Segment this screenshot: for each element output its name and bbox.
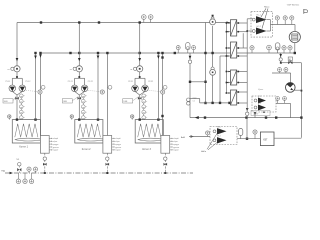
- hx circulation pump: [211, 67, 214, 70]
- kt outlet instruments: [277, 98, 279, 103]
- svg-text:С1: С1: [193, 101, 195, 103]
- gas meters above: [28, 169, 30, 173]
- svg-text:ГН1: ГН1: [16, 159, 19, 161]
- kt inlet drop: [254, 112, 256, 118]
- offpage connector flag: [303, 9, 305, 14]
- svg-text:продув: продув: [173, 144, 179, 146]
- junction supply-riser2: [98, 21, 100, 23]
- svg-text:дренаж: дренаж: [173, 147, 180, 149]
- pipe riser to bottom return: [189, 53, 191, 118]
- safety valve RU-12: [19, 85, 26, 92]
- svg-text:Котел 1: Котел 1: [19, 145, 28, 148]
- svg-text:РУ-12: РУ-12: [26, 81, 31, 83]
- network pump NS-2: [252, 30, 255, 33]
- feed pump box (dashed): [210, 127, 237, 145]
- svg-text:АпВ: АпВ: [181, 136, 186, 139]
- sensor column boiler 2: [82, 96, 84, 118]
- boiler pump KT-1: [254, 99, 257, 102]
- valve group outlet pipe 1: [12, 91, 17, 95]
- meter circle r2: [268, 48, 270, 54]
- svg-text:РУ-32: РУ-32: [148, 81, 153, 83]
- hx port stub: [226, 71, 230, 73]
- riser pipe boiler 1: [16, 23, 18, 67]
- junction gas line boiler 3: [164, 172, 166, 174]
- label box group 2: [62, 99, 72, 103]
- svg-text:РУ-11: РУ-11: [6, 81, 11, 83]
- burner flame boiler 3: [138, 138, 166, 141]
- shutoff valve under group 1: [15, 97, 19, 100]
- pump N3: [139, 66, 141, 77]
- svg-text:НС-1: НС-1: [257, 15, 261, 17]
- bottom return line: [190, 117, 301, 119]
- discharge meter 1: [276, 18, 278, 25]
- return expansion tank: [186, 43, 190, 50]
- gas drop pipe boiler 1: [44, 153, 46, 173]
- gas drop circle boiler 1: [43, 157, 46, 160]
- supply header pipe: [17, 22, 233, 24]
- instrument circles x188: [187, 98, 190, 101]
- svg-text:НС-2: НС-2: [257, 26, 261, 28]
- drum outlet labels boiler 2: [112, 137, 114, 139]
- gas drop circle boiler 3: [164, 157, 167, 160]
- drum outlet labels boiler 1: [49, 137, 51, 139]
- burner body boiler 3: [164, 138, 168, 142]
- hx port stub: [226, 82, 230, 84]
- svg-text:НаСо: НаСо: [264, 7, 270, 9]
- svg-text:дренаж: дренаж: [53, 147, 60, 149]
- gas main line: [5, 172, 193, 174]
- discharge meter 2: [284, 18, 286, 25]
- meter circle r3: [283, 48, 285, 53]
- drum return pipe: [40, 53, 42, 136]
- safety valve RU-31: [132, 85, 139, 92]
- hx left manifold pipe: [225, 23, 227, 93]
- hx port stub: [226, 47, 230, 49]
- boiler pump box (dashed): [252, 96, 276, 112]
- boiler gauge 3: [131, 117, 133, 120]
- boiler K3 outlet junction: [157, 118, 159, 120]
- pump discharge pipe: [295, 89, 302, 91]
- hx right stub: [237, 55, 248, 57]
- expansion tank: [275, 43, 280, 50]
- hx port stub: [226, 31, 230, 33]
- boiler gauge 1: [8, 117, 10, 120]
- valve group outlet pipe 2: [75, 91, 80, 95]
- svg-text:Котел 2: Котел 2: [82, 148, 91, 151]
- riser pipe boiler 2: [78, 23, 80, 67]
- gas drop valve boiler 1: [43, 163, 47, 166]
- valve group K2 header pipe: [78, 77, 80, 78]
- hx right stub: [237, 91, 248, 93]
- boiler K2 coil: [77, 124, 100, 137]
- svg-text:НК-2: НК-2: [217, 136, 221, 138]
- heat exchanger T3: [231, 70, 237, 85]
- label box cRTU: [251, 111, 270, 116]
- burner body boiler 1: [41, 138, 45, 142]
- feed pump NK-2: [213, 139, 216, 142]
- gas drop pipe boiler 3: [164, 153, 166, 173]
- boiler K3 vessel: [135, 120, 163, 143]
- crossover pipe: [190, 81, 206, 83]
- hx right stub: [237, 47, 248, 49]
- hx right stub: [237, 102, 248, 104]
- hx right manifold pipes: [246, 19, 248, 108]
- gas drop circle boiler 2: [106, 157, 109, 160]
- pump N2: [78, 66, 80, 77]
- boiler K2 inlet junction: [78, 118, 80, 120]
- boiler K2 outlet junction: [97, 118, 99, 120]
- boiler K1 inlet junction: [16, 118, 18, 120]
- label box group 1: [3, 99, 13, 103]
- svg-text:обрат: обрат: [53, 141, 58, 143]
- svg-text:НаКо: НаКо: [201, 151, 207, 153]
- instrument circle right of group 3: [161, 90, 165, 94]
- feed pump NK-1: [213, 130, 216, 133]
- svg-text:общий: общий: [115, 137, 120, 140]
- hx feed pipe A: [205, 23, 207, 104]
- svg-text:РУ-21: РУ-21: [68, 81, 73, 83]
- return header pipe: [41, 52, 295, 54]
- pump N1: [16, 66, 18, 77]
- svg-text:подпит: подпит: [173, 150, 179, 152]
- mixed water pipe: [300, 63, 302, 138]
- boiler pump KT-2: [254, 106, 257, 109]
- boiler K1 outlet junction: [34, 118, 36, 120]
- mixing instruments: [279, 70, 281, 73]
- burner body boiler 2: [103, 138, 107, 142]
- feed outlet line: [237, 138, 260, 140]
- svg-text:продув: продув: [53, 144, 59, 146]
- feed expansion tank: [239, 129, 243, 136]
- return meter 2: [193, 48, 195, 53]
- drum boiler 2: [103, 136, 112, 154]
- svg-text:КТ1: КТ1: [258, 96, 261, 98]
- outlet pipe boiler 1 to return header: [35, 53, 37, 120]
- drum return meter: [108, 85, 112, 89]
- return header junction dots: [69, 52, 71, 54]
- circulation pump big: [286, 83, 296, 93]
- drum return meter: [41, 85, 45, 89]
- heat meter XBT: [260, 132, 274, 146]
- drum boiler 1: [40, 136, 49, 154]
- drum return pipe: [162, 53, 164, 136]
- hx feed pipe B: [219, 56, 221, 103]
- makeup drop pipe: [280, 53, 282, 63]
- safety valve RU-32: [142, 85, 149, 92]
- gas meters below: [17, 173, 19, 181]
- svg-text:ГНД: ГНД: [1, 171, 6, 173]
- valve group outlet pipe 3: [135, 91, 140, 95]
- shutoff valve under group 3: [138, 97, 142, 100]
- svg-text:обрат: обрат: [115, 141, 120, 143]
- pipe to heat meter: [246, 118, 248, 139]
- return meter 1: [177, 48, 179, 53]
- svg-text:РУ-31: РУ-31: [128, 81, 133, 83]
- junction gas line boiler 2: [106, 172, 108, 174]
- gas drop valve boiler 3: [164, 163, 168, 166]
- return header junction: [174, 52, 176, 54]
- header pump stack: [212, 15, 214, 17]
- boiler gauge 2: [71, 117, 73, 120]
- shutoff valve under group 2: [78, 97, 82, 100]
- junction gas line boiler 1: [44, 172, 46, 174]
- heat exchanger T2: [231, 42, 237, 58]
- instrument circle right of group 1: [38, 90, 42, 94]
- flue unit stem: [294, 43, 296, 53]
- sensor column boiler 1: [20, 96, 22, 118]
- pump discharge manifold: [267, 19, 271, 21]
- flow arrow riser 3: [138, 58, 141, 61]
- hx circulation pipe: [212, 26, 214, 103]
- valve group K3 header pipe: [139, 77, 141, 78]
- discharge meter 3: [291, 18, 293, 25]
- hx lower loop pipes: [190, 98, 200, 100]
- svg-text:Котел 3: Котел 3: [142, 148, 151, 151]
- pump suction pipes: [247, 18, 252, 20]
- label box group 3: [123, 99, 133, 103]
- gas drop valve boiler 2: [106, 163, 110, 166]
- hx port stub: [226, 92, 230, 94]
- hx port stub: [226, 22, 230, 24]
- safety valve RU-11: [9, 85, 16, 92]
- svg-text:НК-1: НК-1: [217, 127, 221, 129]
- gas drop pipe boiler 2: [106, 153, 108, 173]
- drum boiler 3: [161, 136, 170, 154]
- flue unit circle: [289, 31, 300, 42]
- three way valve M: [288, 57, 292, 60]
- drum outlet labels boiler 3: [170, 137, 172, 139]
- boiler K1 vessel: [12, 120, 40, 143]
- svg-text:общий: общий: [53, 137, 58, 140]
- junction supply-riser1: [40, 21, 42, 23]
- valve branch pipes: [281, 62, 288, 64]
- hx outlet circle: [246, 112, 249, 115]
- boiler K3 coil: [138, 124, 161, 137]
- svg-text:Т-МР 800/2пл: Т-МР 800/2пл: [287, 5, 301, 7]
- hx outlet drop: [246, 108, 249, 111]
- sensor column boiler 3: [143, 96, 145, 118]
- kt outlet line: [276, 102, 291, 104]
- svg-text:продув: продув: [115, 144, 121, 146]
- safety valve RU-22: [81, 85, 88, 92]
- hx port stub: [226, 55, 230, 57]
- boiler K1 coil: [15, 124, 38, 137]
- drum return meter: [163, 85, 167, 89]
- heat meter outlet: [274, 137, 301, 139]
- valve group K1 header pipe: [16, 77, 18, 78]
- boiler K2 vessel: [75, 120, 103, 143]
- svg-text:дренаж: дренаж: [115, 147, 122, 149]
- svg-text:КТ2: КТ2: [258, 103, 261, 105]
- riser pipe boiler 3: [139, 23, 141, 67]
- burner flame boiler 2: [77, 138, 107, 141]
- outlet pipe boiler 3 to return header: [157, 53, 159, 120]
- svg-text:ХВТ: ХВТ: [263, 138, 268, 141]
- outlet pipe boiler 2 to return header: [97, 53, 99, 120]
- svg-text:подпит: подпит: [53, 150, 59, 152]
- safety valve RU-21: [71, 85, 78, 92]
- network pump box (dashed): [251, 12, 273, 37]
- meter circle r4: [289, 48, 291, 53]
- svg-text:обрат: обрат: [173, 141, 178, 143]
- svg-text:РУ-22: РУ-22: [88, 81, 93, 83]
- meter circle r1: [251, 48, 253, 53]
- svg-text:с.РТУ: с.РТУ: [253, 113, 259, 115]
- hx right stub: [237, 31, 248, 33]
- makeup inlet meter: [207, 133, 209, 137]
- boiler K3 inlet junction: [139, 118, 141, 120]
- flow arrow into HX1: [227, 21, 230, 23]
- feed meter circle: [254, 132, 256, 139]
- svg-text:общий: общий: [173, 137, 178, 140]
- flow arrow riser 1: [16, 58, 19, 61]
- mixing line: [272, 72, 291, 74]
- bottom return arrow: [195, 116, 199, 119]
- drum return pipe: [106, 53, 108, 136]
- heat exchanger T4: [231, 90, 237, 105]
- discharge outlet pipe: [271, 24, 296, 26]
- hx right stub: [237, 82, 248, 84]
- flow arrow riser 2: [78, 58, 81, 61]
- burner flame boiler 1: [15, 138, 45, 141]
- network pump NS-1: [252, 18, 255, 21]
- svg-text:Ц.нас: Ц.нас: [258, 89, 263, 91]
- instrument circle right of group 2: [100, 90, 104, 94]
- hx right stub: [237, 22, 248, 24]
- heat exchanger T1: [231, 20, 237, 36]
- instrument pair above supply header: [143, 17, 145, 23]
- svg-text:подпит: подпит: [115, 150, 121, 152]
- hx right stub: [237, 71, 248, 73]
